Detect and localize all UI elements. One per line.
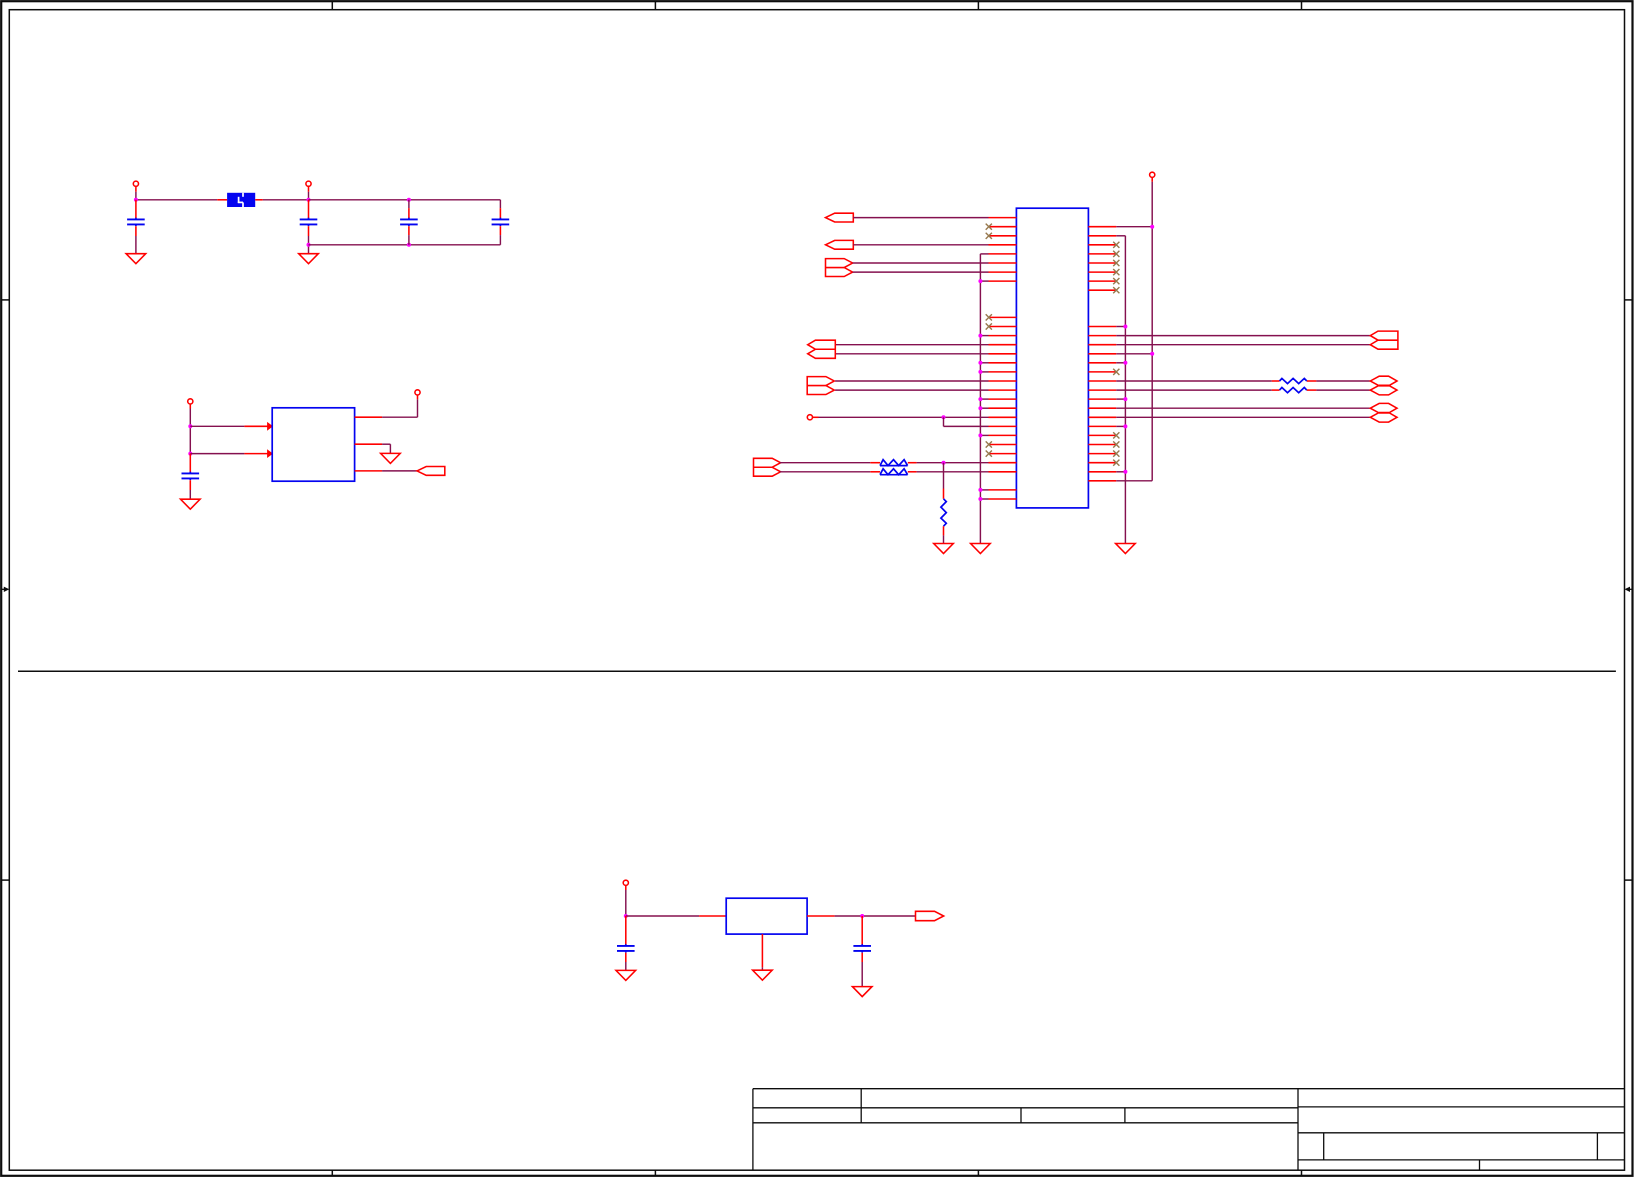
wire U2 row18 to R4 [1116, 380, 1279, 382]
wire to U3 input [626, 915, 726, 917]
port PG (right-pointing, 2-bit) [754, 458, 781, 476]
wire R4 to PI [1307, 380, 1371, 382]
port PA (left-pointing, 1-bit) [826, 213, 854, 222]
port PC (right-pointing, 2-bit) [826, 259, 853, 277]
wire net VIN to ferrite bead [136, 199, 227, 201]
ferrite bead FB1 [227, 193, 255, 207]
power port P3 (bubble) [188, 399, 193, 454]
wire PD bit0 to U2 [836, 344, 989, 346]
wire bottom rail [309, 244, 501, 246]
no-connect X right pin row 6 [1113, 269, 1119, 275]
no-connect X left pin row 25 [986, 441, 992, 447]
wire PG bit1 via R2 [780, 471, 880, 473]
ground below R3 [934, 544, 954, 554]
power port P6 (bubble) [623, 880, 628, 916]
ground GND C2 [299, 254, 319, 264]
junction node VDD at P2 [307, 198, 311, 202]
power port P1 (bubble) [133, 181, 138, 200]
no-connect X right pin row 8 [1113, 287, 1119, 293]
junction bottom rail at C3 [407, 243, 411, 247]
junction PF branch [942, 415, 946, 419]
IC U1 [272, 408, 354, 481]
wire vertical V3 from P5 [1116, 182, 1152, 481]
wire U2 row13 to PH [1116, 335, 1370, 337]
wire U2 row1 to V3 [1116, 226, 1152, 228]
IC U2 [989, 208, 1117, 508]
port PJ (bidirectional, 2-bit) [1370, 403, 1397, 422]
junction V4 row 23 [1123, 424, 1127, 428]
no-connect X right pin row 4 [1113, 251, 1119, 257]
junction regulator input [624, 914, 628, 918]
resistor R1 [880, 460, 908, 466]
resistor R2 [880, 469, 908, 475]
junction V3 row1 [1150, 225, 1154, 229]
wire vertical bus V4 [1116, 236, 1125, 544]
wire U2 row19 to R5 [1116, 389, 1279, 391]
junction U3 output [860, 914, 864, 918]
U1 pin 3 wire to port [355, 470, 417, 472]
wire U2 row22 to PJ [1116, 416, 1370, 418]
junction U1 input A [188, 424, 192, 428]
ground below U3 [753, 970, 773, 980]
capacitor C6 [617, 916, 635, 970]
wire U2 row21 to PJ [1116, 407, 1370, 409]
junction V1 row 17 [978, 370, 982, 374]
no-connect X right pin row 26 [1113, 451, 1119, 457]
U3 ground pin wire [761, 934, 763, 970]
no-connect X right pin row 5 [1113, 260, 1119, 266]
port VOUT (right-pointing) [916, 911, 944, 920]
junction R3 tap [942, 461, 946, 465]
resistor R5 [1280, 388, 1307, 393]
capacitor C4 [492, 200, 510, 245]
capacitor C5 [182, 454, 200, 500]
junction V4 row 16 [1123, 361, 1127, 365]
wire PF to U2 row22 [813, 416, 989, 418]
wire PA to U2 [853, 217, 988, 219]
no-connect X left pin row 1 [986, 224, 992, 230]
wire PD bit1 to U2 [836, 353, 989, 355]
junction V4 row 12 [1123, 325, 1127, 329]
wire U2 row14 to PH [1116, 344, 1370, 346]
junction V1 row 13 [978, 334, 982, 338]
wire vertical bus V1 [980, 254, 988, 544]
resistor R4 [1280, 378, 1307, 383]
no-connect X left pin row 26 [986, 451, 992, 457]
junction V1 row 30 [978, 488, 982, 492]
wire PC bit1 to U2 [853, 271, 989, 273]
no-connect X right pin row 24 [1113, 432, 1119, 438]
U1 pin 2 wire to ground [355, 444, 391, 453]
wire U2 row15 to V3 [1116, 353, 1152, 355]
junction V1 row 24 [978, 433, 982, 437]
regulator U3 [726, 898, 807, 934]
wire to U1 pin B [190, 450, 272, 457]
ground GND C1 [126, 254, 146, 264]
capacitor C3 [400, 200, 418, 245]
ground GND C7 [852, 987, 872, 997]
port PE (right-pointing, 2-bit) [807, 377, 834, 395]
junction node VIN [134, 198, 138, 202]
power port P5 (bubble) [1150, 172, 1155, 182]
open wire bubble PF [807, 415, 812, 420]
power port P2 (bubble) [306, 181, 311, 200]
junction below C2 [307, 243, 311, 247]
ground below V4 [1116, 544, 1136, 554]
junction V1 row 7 [978, 279, 982, 283]
wire ferrite bead to P2 [255, 199, 308, 201]
wire PE bit1 to U2 [835, 389, 988, 391]
no-connect X right pin row 7 [1113, 278, 1119, 284]
junction V1 row 31 [978, 497, 982, 501]
wire to U1 pin A [190, 423, 272, 430]
wire U3 output [807, 915, 915, 917]
wire PB to U2 [853, 244, 988, 246]
wire R1 to U2 row27 [908, 462, 989, 464]
junction V1 row 21 [978, 406, 982, 410]
power port P4 (bubble) [415, 390, 420, 395]
port PB (left-pointing, 1-bit) [826, 240, 854, 249]
no-connect X right pin row 27 [1113, 460, 1119, 466]
junction V4 row 20 [1123, 397, 1127, 401]
wire PC bit0 to U2 [853, 262, 989, 264]
port PH (left-pointing, 2-bit) [1370, 331, 1398, 349]
wire PG bit0 via R1 [780, 462, 880, 464]
ground at U1 pin 2 [381, 453, 401, 463]
U1 output pin 1 wire to P4 [355, 395, 418, 417]
junction V3 row15 [1150, 352, 1154, 356]
capacitor C7 [853, 916, 871, 987]
no-connect X left pin row 11 [986, 314, 992, 320]
junction U1 input B [188, 452, 192, 456]
port U1 OUT (left-pointing) [417, 467, 445, 476]
junction V1 row 16 [978, 361, 982, 365]
wire R5 to PI [1307, 389, 1371, 391]
capacitor C2 [300, 200, 318, 254]
ground below V1 [971, 544, 991, 554]
no-connect X left pin row 2 [986, 233, 992, 239]
no-connect X right pin row 17 [1113, 369, 1119, 375]
capacitor C1 [127, 200, 145, 254]
no-connect X right pin row 3 [1113, 242, 1119, 248]
no-connect X right pin row 25 [1113, 441, 1119, 447]
wire PF branch to row23 [944, 417, 989, 426]
port PD (left-pointing, 2-bit) [808, 340, 836, 358]
junction top rail at C3 [407, 198, 411, 202]
ground GND C6 [616, 970, 636, 980]
junction V4 row 28 [1123, 470, 1127, 474]
wire R3 pulldown [943, 463, 945, 499]
junction V1 row 20 [978, 397, 982, 401]
wire VDD top rail [309, 199, 501, 201]
wire R3 to ground [943, 526, 945, 543]
resistor R3 [941, 499, 946, 526]
wire R2 to U2 row28 [908, 471, 989, 473]
port PI (bidirectional, 2-bit) [1370, 376, 1397, 395]
wire PE bit0 to U2 [835, 380, 988, 382]
ground GND C5 [181, 499, 201, 509]
no-connect X left pin row 12 [986, 323, 992, 329]
